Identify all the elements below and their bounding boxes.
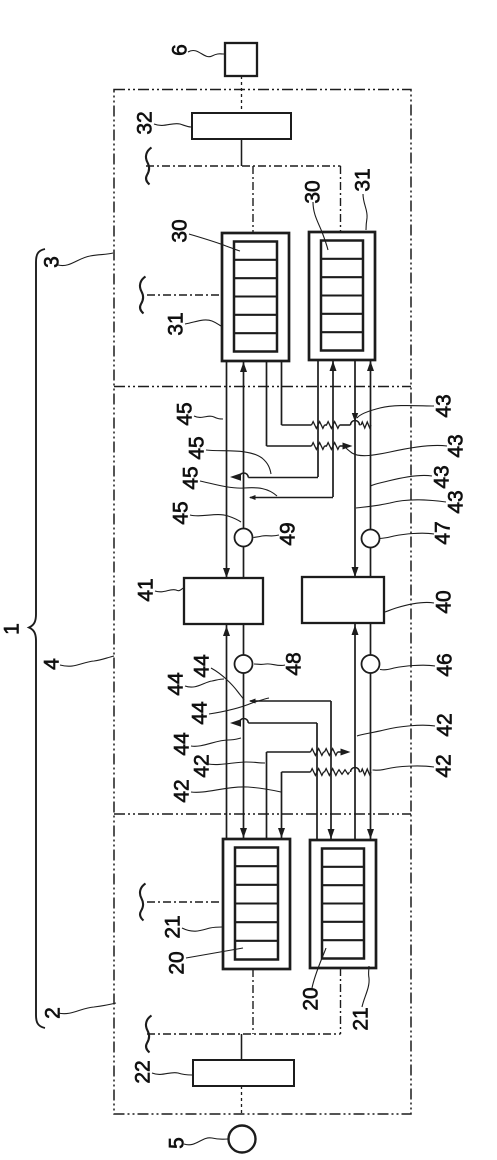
- svg-text:46: 46: [433, 653, 456, 676]
- svg-text:42: 42: [170, 779, 193, 802]
- svg-text:32: 32: [133, 111, 156, 134]
- svg-text:44: 44: [188, 701, 211, 725]
- svg-text:45: 45: [173, 402, 196, 425]
- svg-text:22: 22: [131, 1060, 154, 1083]
- svg-text:30: 30: [168, 219, 191, 242]
- svg-text:42: 42: [190, 754, 213, 777]
- svg-text:1: 1: [0, 623, 23, 635]
- svg-text:40: 40: [432, 590, 455, 613]
- svg-text:45: 45: [179, 466, 202, 489]
- svg-text:21: 21: [161, 915, 184, 938]
- svg-text:44: 44: [190, 654, 213, 678]
- svg-text:44: 44: [170, 732, 193, 756]
- svg-text:47: 47: [431, 521, 454, 544]
- svg-text:5: 5: [165, 1137, 188, 1149]
- svg-text:42: 42: [433, 713, 456, 736]
- svg-text:31: 31: [351, 168, 374, 191]
- svg-text:43: 43: [444, 434, 467, 457]
- svg-text:44: 44: [164, 672, 187, 696]
- svg-text:49: 49: [276, 522, 299, 545]
- svg-text:45: 45: [169, 501, 192, 524]
- svg-text:4: 4: [40, 658, 63, 670]
- svg-text:20: 20: [299, 987, 322, 1010]
- svg-text:6: 6: [168, 44, 191, 56]
- svg-text:3: 3: [40, 256, 63, 268]
- svg-text:42: 42: [432, 754, 455, 777]
- svg-text:20: 20: [165, 951, 188, 974]
- svg-text:48: 48: [282, 652, 305, 675]
- svg-text:41: 41: [134, 578, 157, 601]
- svg-text:45: 45: [185, 436, 208, 459]
- svg-text:43: 43: [430, 465, 453, 488]
- svg-text:30: 30: [301, 180, 324, 203]
- svg-text:43: 43: [432, 394, 455, 417]
- svg-text:43: 43: [444, 490, 467, 513]
- svg-text:31: 31: [164, 312, 187, 335]
- svg-text:21: 21: [349, 1007, 372, 1030]
